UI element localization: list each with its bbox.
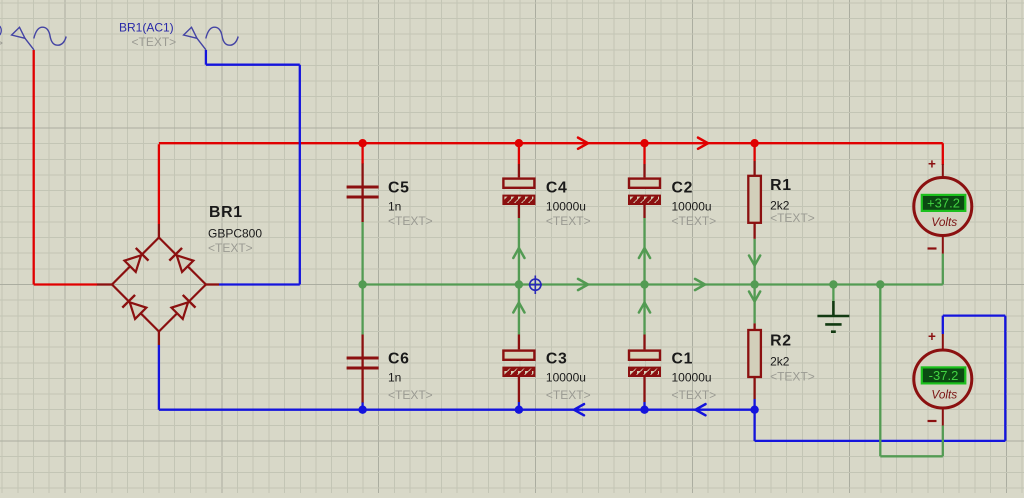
diode D1 (bridge top-left) — [124, 248, 149, 273]
wire — [361, 222, 363, 285]
svg-text:<TEXT>: <TEXT> — [546, 388, 591, 402]
wire — [942, 254, 944, 285]
diode D3 (bridge bottom-left) — [122, 295, 147, 320]
svg-text:<TEXT>: <TEXT> — [132, 35, 177, 49]
svg-text:+37.2: +37.2 — [927, 196, 960, 211]
current arrow (green, right) — [578, 279, 588, 290]
ground symbol — [817, 301, 849, 332]
svg-text:2k2: 2k2 — [770, 355, 790, 369]
wire — [755, 440, 1006, 442]
svg-text:10000u: 10000u — [672, 371, 712, 385]
svg-text:C2: C2 — [672, 180, 694, 197]
svg-text:<TEXT>: <TEXT> — [208, 241, 253, 255]
bridge rectifier BR1 (GBPC800) — [97, 224, 219, 345]
wire — [643, 144, 645, 164]
wire — [158, 345, 160, 410]
svg-text:C5: C5 — [388, 180, 410, 197]
diode D2 (bridge top-right) — [169, 248, 194, 273]
wire — [942, 316, 944, 334]
wire — [361, 402, 363, 410]
wire — [942, 143, 944, 165]
svg-text:<TEXT>: <TEXT> — [546, 214, 591, 228]
wire — [643, 285, 645, 335]
wire — [159, 409, 755, 411]
wire — [880, 455, 943, 457]
svg-text:R1: R1 — [770, 177, 792, 194]
node: mid rail junction R1/R2 — [750, 280, 758, 288]
svg-text:C1: C1 — [672, 351, 694, 368]
svg-text:1n: 1n — [388, 200, 401, 214]
current arrow (green, up) — [639, 248, 650, 258]
wire — [219, 283, 300, 285]
node: blue rail junction C6 — [358, 406, 366, 414]
svg-text:<TEXT>: <TEXT> — [388, 214, 433, 228]
svg-text:BR1: BR1 — [209, 204, 243, 221]
wire — [518, 218, 520, 285]
wire — [206, 64, 300, 66]
wire — [753, 399, 755, 410]
wire — [159, 142, 943, 144]
wire — [753, 144, 755, 161]
wire — [753, 410, 755, 441]
node: origin marker on mid rail — [529, 276, 542, 295]
node: blue rail junction C1 — [640, 406, 648, 414]
resistor R1 — [748, 161, 761, 239]
capacitor C4 (electrolytic) — [503, 164, 534, 218]
wire — [361, 144, 363, 164]
wire — [643, 402, 645, 410]
wire — [518, 144, 520, 164]
current arrow (blue, left) — [696, 404, 706, 415]
svg-text:R2: R2 — [770, 333, 792, 350]
svg-text:10000u: 10000u — [546, 200, 586, 214]
capacitor C3 (electrolytic) — [503, 335, 534, 403]
node: mid rail junction ground — [829, 280, 837, 288]
svg-text:C6: C6 — [388, 351, 410, 368]
voltmeter (top, +37.2 Volts) — [914, 164, 972, 254]
svg-text:<TEXT>: <TEXT> — [672, 214, 717, 228]
capacitor C5 — [347, 164, 379, 223]
voltmeter (bottom, -37.2 Volts) — [914, 334, 972, 426]
wire — [361, 285, 363, 335]
wire — [518, 402, 520, 410]
svg-text:C3: C3 — [546, 351, 568, 368]
wire — [518, 285, 520, 335]
wire — [879, 285, 881, 457]
svg-text:<TEXT>: <TEXT> — [770, 211, 815, 225]
wire — [33, 50, 35, 285]
wire — [34, 283, 97, 285]
capacitor C2 (electrolytic) — [629, 164, 660, 218]
svg-text:<TEXT>: <TEXT> — [672, 388, 717, 402]
svg-text:Volts: Volts — [931, 215, 957, 229]
current arrow (green, up) — [513, 248, 524, 258]
current arrow (green, up) — [639, 303, 650, 313]
AC source terminal BR1(AC1) — [184, 27, 239, 50]
svg-text:<TEXT>: <TEXT> — [770, 370, 815, 384]
capacitor C1 (electrolytic) — [629, 335, 660, 403]
wire — [832, 285, 834, 302]
wire — [753, 239, 755, 285]
node: mid rail junction C4/C3 — [515, 280, 523, 288]
svg-text:<TEXT>: <TEXT> — [388, 388, 433, 402]
current arrow (red, right) — [578, 138, 588, 149]
svg-text:10000u: 10000u — [672, 200, 712, 214]
node: red rail junction C5 — [358, 139, 366, 147]
current arrow (green, right) — [695, 279, 705, 290]
current arrow (green, up) — [513, 303, 524, 313]
wire — [158, 144, 160, 224]
node: blue rail junction R2 — [750, 406, 758, 414]
wire — [753, 285, 755, 324]
wire — [205, 50, 207, 65]
svg-text:): ) — [0, 23, 3, 37]
wire — [299, 65, 301, 285]
wire — [363, 283, 943, 285]
node: mid rail junction meter branch — [876, 280, 884, 288]
minus terminal label — [928, 420, 937, 422]
minus terminal label — [928, 247, 937, 249]
node: red rail junction C2 — [640, 139, 648, 147]
wire — [643, 218, 645, 285]
current arrow (blue, left) — [574, 404, 584, 415]
current arrow (red, right) — [698, 138, 708, 149]
svg-text:1n: 1n — [388, 371, 401, 385]
svg-text:C4: C4 — [546, 180, 568, 197]
svg-text:+: + — [928, 329, 936, 344]
node: red rail junction R1 — [750, 139, 758, 147]
svg-text:-37.2: -37.2 — [929, 368, 959, 383]
node: mid rail junction C5/C6 — [358, 280, 366, 288]
AC source terminal BR1(AC2) — [12, 27, 67, 50]
svg-text:+: + — [928, 157, 936, 172]
wire — [1004, 316, 1006, 441]
current arrow (green, down) — [749, 292, 760, 302]
resistor R2 — [748, 323, 761, 399]
wire — [943, 314, 1006, 316]
svg-text:10000u: 10000u — [546, 371, 586, 385]
svg-text:>: > — [0, 36, 3, 50]
node: blue rail junction C3 — [515, 406, 523, 414]
svg-text:BR1(AC1): BR1(AC1) — [119, 21, 174, 35]
node: mid rail junction C2/C1 — [640, 280, 648, 288]
wire — [942, 426, 944, 457]
node: red rail junction C4 — [515, 139, 523, 147]
svg-text:Volts: Volts — [931, 388, 957, 402]
capacitor C6 — [347, 335, 379, 403]
current arrow (green, down) — [749, 256, 760, 266]
diode D4 (bridge bottom-right) — [171, 295, 196, 320]
svg-text:GBPC800: GBPC800 — [208, 227, 262, 241]
